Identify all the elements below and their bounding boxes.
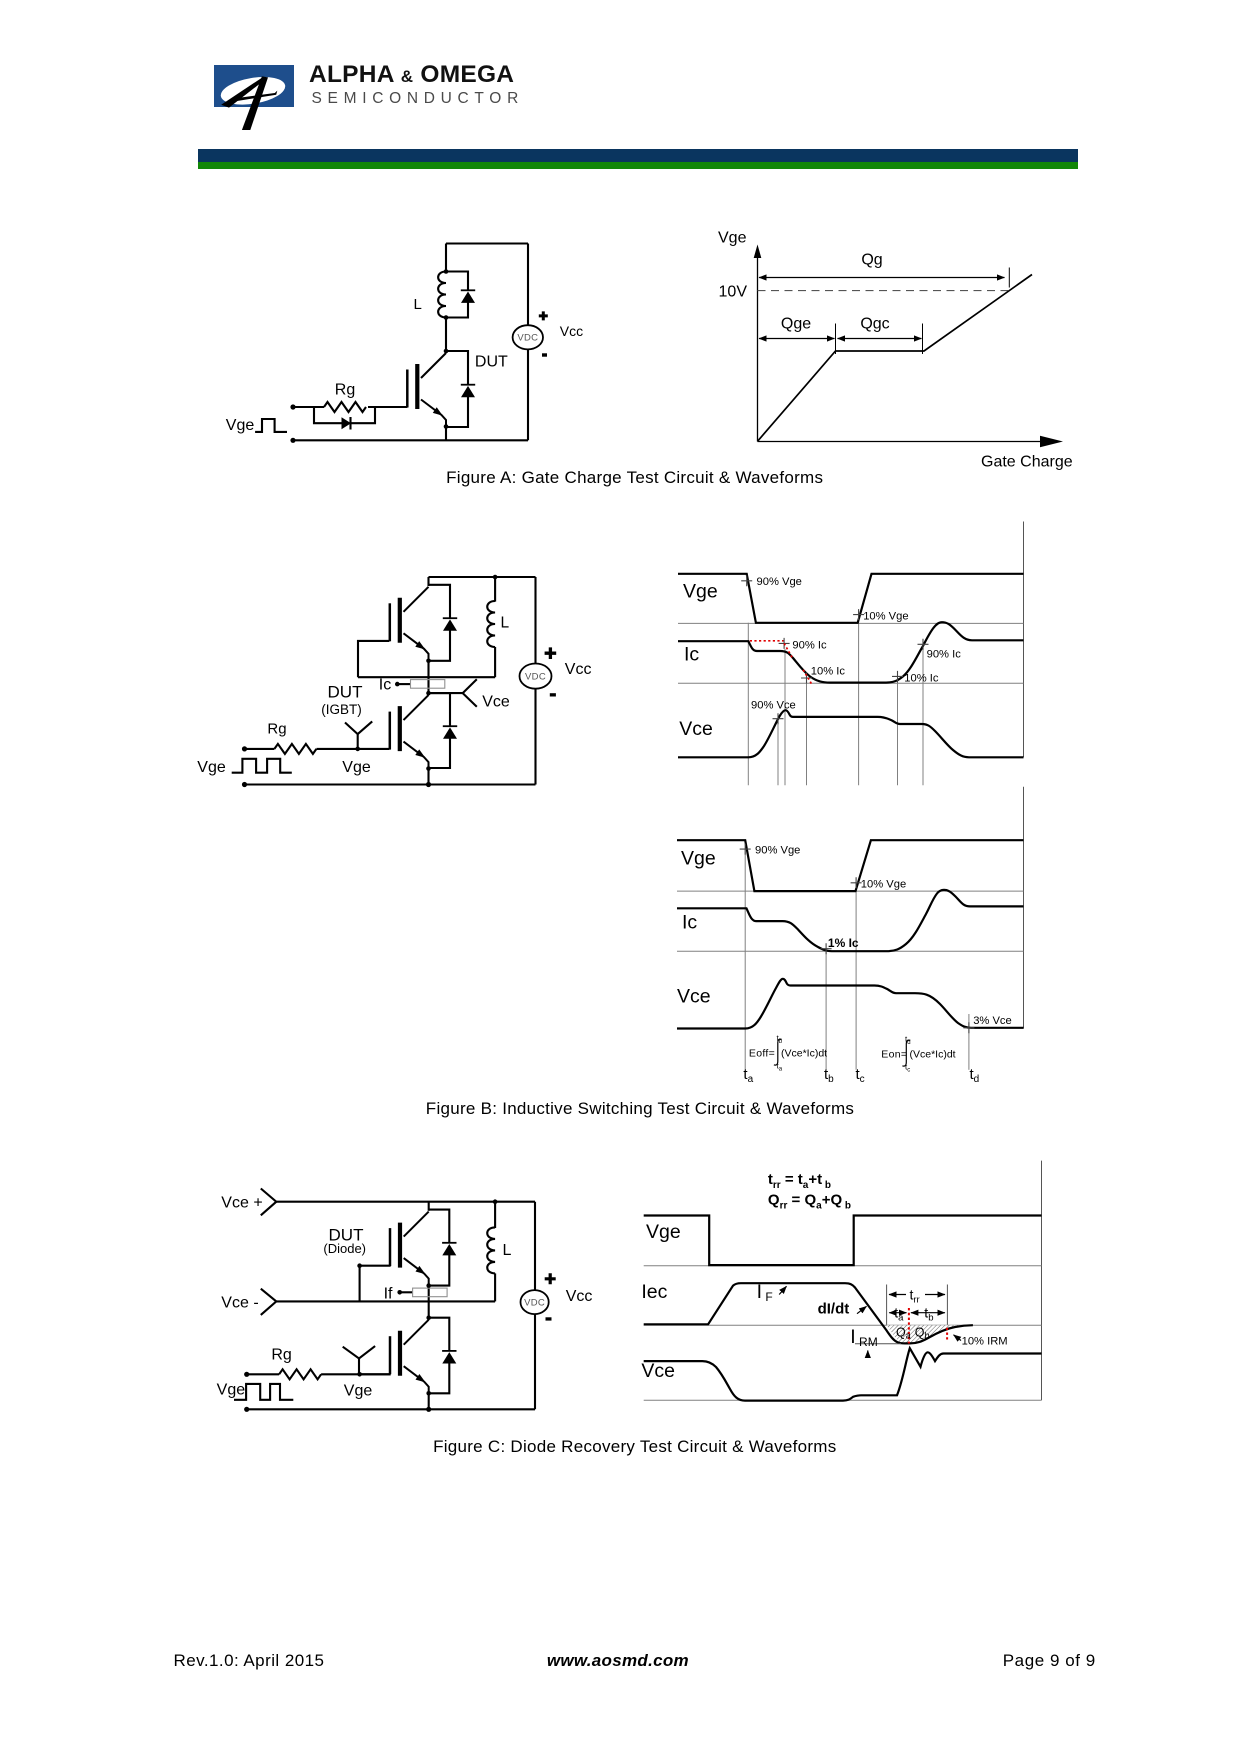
svg-text:10% Vge: 10% Vge [863,611,908,623]
svg-text:10% IRM: 10% IRM [962,1336,1008,1348]
svg-text:1% Ic: 1% Ic [828,936,859,950]
svg-text:Vge: Vge [226,417,255,434]
svg-text:Vce +: Vce + [221,1195,262,1212]
svg-text:90% Ic: 90% Ic [927,649,962,661]
svg-text:DUT: DUT [475,353,508,370]
svg-text:90% Vce: 90% Vce [751,700,796,712]
svg-text:ta: ta [777,1062,783,1073]
svg-text:(Diode): (Diode) [323,1241,366,1256]
svg-text:Vge: Vge [342,759,371,776]
svg-text:trr: trr [910,1287,920,1306]
svg-text:ta: ta [894,1305,904,1324]
svg-text:10% Vge: 10% Vge [861,879,906,891]
svg-text:DUT: DUT [328,683,363,702]
svg-text:Qg: Qg [861,252,882,269]
svg-text:Vce: Vce [677,986,711,1008]
svg-text:tc: tc [856,1066,865,1085]
svg-text:Vce: Vce [641,1360,675,1382]
svg-text:Vcc: Vcc [560,323,583,339]
svg-text:L: L [503,1242,512,1259]
svg-text:Vge: Vge [681,848,716,870]
svg-text:Eon=: Eon= [881,1049,907,1061]
svg-text:tb: tb [824,1066,834,1085]
svg-text:L: L [501,615,510,632]
svg-text:tb: tb [924,1305,933,1324]
svg-text:10% Ic: 10% Ic [904,673,939,685]
svg-text:VDC: VDC [517,333,538,344]
svg-text:Qge: Qge [781,316,811,333]
svg-text:Vcc: Vcc [566,1288,593,1305]
svg-text:Vge: Vge [344,1383,373,1400]
svg-text:Rg: Rg [271,1347,291,1364]
svg-text:Ic: Ic [682,912,697,934]
svg-text:Gate Charge: Gate Charge [981,454,1073,471]
svg-text:Vge: Vge [683,581,718,603]
svg-text:90% Ic: 90% Ic [792,639,827,651]
svg-text:Vce: Vce [679,718,713,740]
svg-text:90% Vge: 90% Vge [755,844,800,856]
svg-text:trr = ta+t b: trr = ta+t b [768,1171,831,1191]
svg-text:Qgc: Qgc [860,316,889,333]
svg-text:I F: I F [757,1281,773,1304]
svg-text:VDC: VDC [524,1297,545,1308]
svg-text:Vce -: Vce - [221,1295,258,1312]
svg-text:I RM: I RM [850,1326,877,1349]
svg-text:Iec: Iec [641,1281,667,1303]
svg-text:(Vce*Ic)dt: (Vce*Ic)dt [781,1048,827,1060]
svg-text:Vge: Vge [646,1221,681,1243]
svg-text:10V: 10V [719,284,748,301]
svg-text:Vce: Vce [482,694,510,711]
svg-text:td: td [970,1066,980,1085]
svg-text:Rg: Rg [267,721,286,738]
svg-text:90% Vge: 90% Vge [757,576,802,588]
svg-text:10% Ic: 10% Ic [811,666,846,678]
svg-text:Ic: Ic [379,677,391,694]
svg-text:Vge: Vge [718,230,747,247]
svg-text:tc: tc [905,1063,910,1074]
svg-text:Vge: Vge [217,1382,246,1399]
svg-text:(Vce*Ic)dt: (Vce*Ic)dt [910,1049,956,1061]
svg-text:Vge: Vge [197,759,226,776]
svg-text:ta: ta [743,1066,753,1085]
svg-text:(IGBT): (IGBT) [321,702,362,717]
svg-text:Qrr = Qa+Q b: Qrr = Qa+Q b [768,1192,851,1212]
svg-text:3% Vce: 3% Vce [973,1015,1012,1027]
svg-text:Rg: Rg [335,382,355,399]
svg-text:L: L [414,296,422,313]
svg-text:Eoff=: Eoff= [749,1048,775,1060]
svg-text:Vcc: Vcc [565,661,592,678]
svg-text:Ic: Ic [684,644,699,666]
svg-text:VDC: VDC [525,671,546,682]
svg-text:dI/dt: dI/dt [818,1301,850,1318]
svg-text:If: If [384,1286,393,1303]
